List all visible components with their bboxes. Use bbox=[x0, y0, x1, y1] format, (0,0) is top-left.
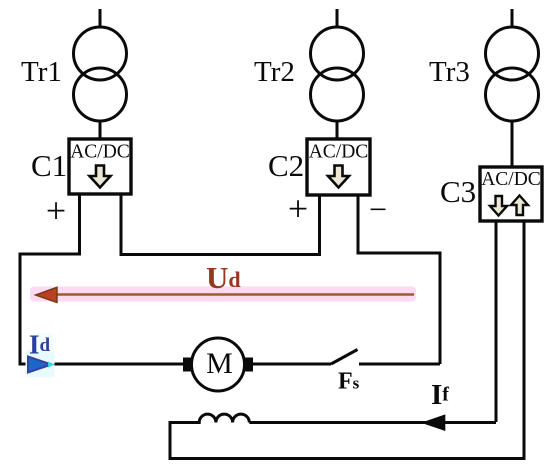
wire motor right to switch bbox=[251, 363, 331, 366]
wire Tr2 to C2 bbox=[336, 121, 339, 139]
svg-text:C1: C1 bbox=[31, 148, 67, 183]
If arrowhead bbox=[421, 414, 445, 431]
svg-text:AC/DC: AC/DC bbox=[70, 142, 130, 163]
svg-text:M: M bbox=[206, 347, 233, 380]
transformer Tr1 bbox=[74, 9, 127, 121]
converter C3 box bbox=[480, 167, 542, 221]
svg-text:AC/DC: AC/DC bbox=[481, 169, 541, 190]
Ud arrowhead bbox=[36, 287, 58, 302]
field loop left and bottom wire bbox=[170, 421, 526, 459]
svg-text:Tr2: Tr2 bbox=[254, 56, 295, 88]
transformer Tr3 bbox=[486, 9, 539, 121]
svg-text:Ud: Ud bbox=[206, 260, 241, 295]
svg-text:C2: C2 bbox=[268, 148, 304, 183]
svg-text:+: + bbox=[46, 191, 66, 231]
svg-text:AC/DC: AC/DC bbox=[309, 142, 369, 163]
transformer Tr2 bbox=[311, 9, 364, 121]
svg-text:+: + bbox=[288, 189, 308, 229]
down arrow in C2 bbox=[328, 166, 349, 188]
Ud pink highlight band bbox=[30, 287, 416, 302]
motor M bbox=[183, 338, 253, 391]
switch Fs blade bbox=[331, 350, 358, 365]
wire C1 left output, left bus, left drop, armature wire bbox=[20, 194, 186, 364]
inductor field winding and top field wire bbox=[170, 414, 496, 422]
down arrow in C3 bbox=[490, 196, 507, 216]
Ud arrow line bbox=[52, 293, 414, 296]
up arrow in C3 bbox=[511, 196, 528, 216]
converter C1 box bbox=[69, 139, 131, 194]
wire Tr1 to C1 bbox=[99, 121, 102, 139]
wire C3 right output down bbox=[523, 221, 526, 459]
down arrow in C1 bbox=[90, 166, 111, 188]
svg-text:If: If bbox=[431, 379, 449, 411]
Id arrowhead bbox=[28, 357, 52, 373]
Id cyan glow bbox=[26, 350, 55, 378]
wire C2 right output, right bus, right drop bbox=[358, 195, 440, 364]
wire Tr3 to C3 bbox=[511, 121, 514, 167]
svg-text:C3: C3 bbox=[440, 174, 476, 209]
svg-text:Tr3: Tr3 bbox=[429, 56, 470, 88]
wire C3 left output down bbox=[495, 221, 498, 422]
svg-text:Fs: Fs bbox=[338, 369, 360, 395]
svg-text:−: − bbox=[369, 191, 387, 227]
Id arrow cyan tip bbox=[48, 362, 55, 368]
converter C2 box bbox=[307, 139, 370, 195]
svg-text:Tr1: Tr1 bbox=[21, 56, 62, 88]
wire C1 right output, middle bus, C2 left input bbox=[121, 194, 320, 255]
wire switch to right drop bbox=[359, 363, 440, 366]
